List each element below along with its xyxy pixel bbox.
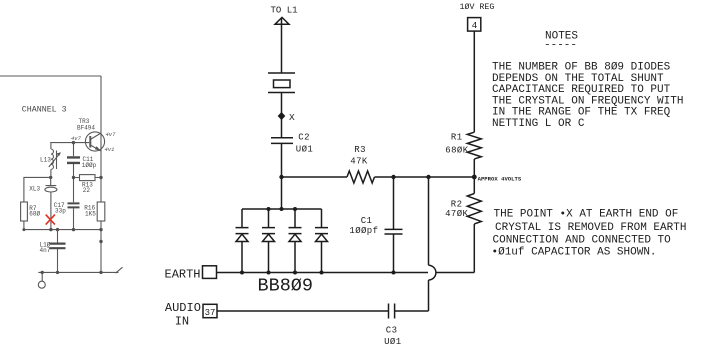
value 470K	[445, 209, 468, 219]
svg-text:CAPACITANCE REQUIRED TO PUT: CAPACITANCE REQUIRED TO PUT	[492, 84, 671, 96]
label R3	[354, 145, 366, 155]
terminal circle	[38, 272, 45, 288]
label BB809	[258, 275, 314, 296]
node earth d1	[240, 271, 244, 275]
svg-text:1ØØpf: 1ØØpf	[349, 226, 378, 236]
capacitor C1 plates	[385, 229, 403, 234]
svg-text:CRYSTAL IS REMOVED FROM EARTH: CRYSTAL IS REMOVED FROM EARTH	[495, 222, 686, 234]
svg-text:22: 22	[83, 187, 91, 194]
transistor TR3 emitter with arrow	[90, 145, 101, 151]
svg-text:EARTH: EARTH	[165, 267, 201, 281]
svg-text:R1: R1	[451, 133, 463, 143]
svg-text:THE CRYSTAL ON FREQUENCY WITH: THE CRYSTAL ON FREQUENCY WITH	[492, 95, 683, 107]
wire right rail	[100, 76, 102, 272]
svg-text:IN: IN	[175, 314, 189, 328]
svg-text:AUDIO: AUDIO	[165, 301, 201, 315]
svg-text:XL3: XL3	[29, 185, 40, 192]
transistor TR3 collector	[90, 133, 101, 140]
node right rail lower	[99, 240, 102, 243]
svg-text:•Ø1uf CAPACITOR AS SHOWN.: •Ø1uf CAPACITOR AS SHOWN.	[492, 246, 657, 258]
wire R2 down to earth line	[473, 224, 475, 273]
capacitor C11	[67, 157, 80, 163]
transistor TR3 base bar	[89, 136, 91, 148]
notes paragraph 1 line 1	[492, 62, 671, 74]
wire base branch through C11 to C17	[73, 143, 75, 230]
voltage 4v7 base	[71, 135, 82, 142]
svg-text:L13: L13	[40, 157, 51, 164]
svg-text:47ØK: 47ØK	[445, 209, 468, 219]
svg-text:UØ1: UØ1	[296, 144, 313, 154]
svg-text:-----: -----	[544, 40, 577, 52]
svg-text:4v1: 4v1	[105, 146, 115, 153]
wire bus down to diode bank	[281, 177, 283, 209]
svg-text:BF494: BF494	[77, 124, 95, 131]
value 4n7	[40, 247, 51, 254]
value U01 (C3)	[384, 337, 401, 347]
node hop-wire bus junction	[426, 175, 430, 179]
varicap diode D2 (BB809)	[262, 209, 275, 273]
value 680	[29, 211, 40, 218]
crystal X1 (plates and body)	[268, 73, 295, 93]
node approx-4volts junction	[472, 175, 477, 180]
node R13 left	[72, 176, 75, 179]
wire audio line right of C3	[395, 310, 429, 312]
svg-text:CHANNEL 3: CHANNEL 3	[22, 106, 67, 115]
resistor R13 box	[74, 175, 102, 181]
node base junction	[72, 141, 75, 144]
node rail c17	[72, 228, 75, 231]
heading underline dashes	[544, 40, 577, 52]
transistor TR3 circle	[85, 132, 104, 151]
wire audio line left of C3	[217, 310, 389, 312]
wire bottom rail	[38, 271, 118, 273]
svg-text:4: 4	[472, 20, 478, 31]
svg-text:C1: C1	[361, 216, 373, 226]
pin number 37	[205, 308, 216, 318]
red cross-out X on XL3 wire	[46, 215, 55, 225]
node rail L10 branch	[56, 228, 59, 231]
label C2	[298, 132, 310, 142]
capacitor C2	[271, 138, 293, 144]
svg-text:C3: C3	[386, 326, 398, 336]
svg-text:IN THE RANGE OF THE TX FREQ: IN THE RANGE OF THE TX FREQ	[492, 107, 671, 119]
svg-text:APPROX 4VOLTS: APPROX 4VOLTS	[478, 175, 522, 182]
terminal box 10V REG 4	[468, 18, 481, 32]
node C1-earth junction	[392, 271, 396, 275]
svg-text:1ØV REG: 1ØV REG	[460, 2, 495, 12]
node bottom rail right	[99, 271, 102, 274]
notes paragraph 1 line 4	[492, 95, 683, 107]
capacitor C17	[68, 203, 80, 207]
label AUDIO	[165, 301, 201, 315]
resistor R7 box	[21, 202, 28, 221]
svg-text:4v7: 4v7	[71, 135, 82, 142]
label C11	[83, 156, 94, 163]
node L13 bottom junction	[49, 176, 52, 179]
node bottom rail terminal	[41, 271, 44, 274]
svg-text:1K5: 1K5	[85, 210, 96, 217]
notes paragraph 1 line 5	[492, 107, 671, 119]
label L10	[40, 241, 51, 248]
svg-text:BB8Ø9: BB8Ø9	[258, 275, 314, 296]
svg-text:C2: C2	[298, 132, 310, 142]
label R13	[82, 182, 93, 189]
capacitor L10 plates	[50, 244, 66, 249]
capacitor L10 branch	[57, 230, 59, 273]
wire 10V reg to R1	[473, 31, 475, 132]
svg-text:TO L1: TO L1	[271, 5, 298, 15]
node bottom rail L10	[56, 271, 59, 274]
resistor R3	[347, 171, 374, 183]
svg-text:4v7: 4v7	[106, 131, 117, 138]
label IN	[175, 314, 189, 328]
svg-text:47K: 47K	[350, 157, 368, 167]
wire crystal to C2	[281, 93, 283, 138]
label CHANNEL 3	[22, 106, 67, 115]
label APPROX 4VOLTS	[478, 175, 522, 182]
notes paragraph 2 line 3	[493, 234, 672, 246]
svg-text:R3: R3	[354, 145, 366, 155]
capacitor C1 branch wires	[393, 177, 395, 273]
svg-text:68ØK: 68ØK	[445, 146, 468, 156]
wire R7 to junction rail	[23, 221, 25, 230]
node C1-bus junction	[391, 175, 395, 179]
crystal XL3	[45, 177, 57, 229]
svg-text:THE POINT •X AT EARTH END OF: THE POINT •X AT EARTH END OF	[494, 209, 679, 221]
wire base lead	[50, 142, 89, 145]
value 22	[83, 187, 91, 194]
node top bus center	[280, 207, 284, 211]
wire junction rail	[24, 229, 101, 231]
node earth d2	[267, 271, 271, 275]
svg-text:UØ1: UØ1	[384, 337, 401, 347]
wire from arrow to crystal	[281, 19, 283, 73]
notes paragraph 1 line 6	[492, 118, 585, 130]
label BF494	[77, 124, 95, 131]
label 10V REG	[460, 2, 495, 12]
svg-text:37: 37	[205, 308, 216, 318]
varicap diode D3 (BB809)	[289, 209, 302, 273]
wire main bus right of R3	[375, 176, 475, 178]
svg-text:CONNECTION AND CONNECTED TO: CONNECTION AND CONNECTED TO	[493, 234, 672, 246]
notes paragraph 2 line 2	[495, 222, 686, 234]
node X marker	[279, 113, 285, 119]
svg-text:DEPENDS ON THE TOTAL SHUNT: DEPENDS ON THE TOTAL SHUNT	[492, 73, 664, 85]
node crystal-bus junction	[279, 175, 283, 179]
label C1	[361, 216, 373, 226]
value 100pf	[349, 226, 378, 236]
label R2	[451, 200, 463, 210]
capacitor C3 plates	[389, 304, 395, 319]
wire to R7	[24, 177, 51, 202]
varicap diode D1 (BB809)	[236, 209, 249, 273]
resistor R16 box	[97, 202, 105, 221]
node earth d4	[320, 271, 324, 275]
heading NOTES	[545, 31, 578, 43]
label R1	[451, 133, 463, 143]
value 100p	[82, 162, 97, 169]
resistor R2	[467, 194, 481, 224]
svg-text:X: X	[289, 112, 295, 123]
notes paragraph 2 line 4	[492, 246, 657, 258]
voltage 4v7 collector	[106, 131, 117, 138]
svg-text:NETTING L OR C: NETTING L OR C	[492, 118, 585, 130]
node earth d3	[293, 271, 297, 275]
svg-text:THE NUMBER OF BB 8Ø9 DIODES: THE NUMBER OF BB 8Ø9 DIODES	[492, 62, 671, 74]
varicap diode D4 (BB809)	[315, 209, 328, 273]
antenna arrow to L1	[275, 17, 289, 24]
wire R1 to junction	[473, 159, 475, 177]
label TO L1	[271, 5, 298, 15]
value 47K	[350, 157, 368, 167]
value 33p	[55, 207, 66, 214]
notes paragraph 2 line 1	[494, 209, 679, 221]
node rail xl3	[49, 228, 52, 231]
svg-text:68Ø: 68Ø	[29, 211, 40, 218]
terminal box AUDIO IN 37	[203, 304, 217, 317]
svg-text:1ØØp: 1ØØp	[82, 162, 97, 169]
resistor R1	[467, 132, 481, 159]
label C17	[54, 202, 65, 209]
label XL3	[29, 185, 40, 192]
value 1K5	[85, 210, 96, 217]
wire hop branch with arc over earth line	[429, 177, 436, 311]
wire earth line	[217, 272, 475, 274]
terminal box EARTH	[203, 266, 217, 279]
notes paragraph 1 line 2	[492, 73, 664, 85]
label R7	[29, 205, 37, 212]
label EARTH	[165, 267, 201, 281]
svg-text:R2: R2	[451, 200, 463, 210]
value 680K	[445, 146, 468, 156]
node rail R7 corner	[22, 228, 25, 231]
wire junction to R2	[473, 177, 475, 194]
label R16	[84, 205, 95, 212]
wire diode bank top bus	[242, 208, 322, 210]
label C3	[386, 326, 398, 336]
svg-text:4n7: 4n7	[40, 247, 51, 254]
label X node	[289, 112, 295, 123]
label L13	[40, 157, 51, 164]
wire main bus left of R3	[282, 176, 348, 178]
node top bus d2	[267, 207, 271, 211]
node rail right	[99, 228, 102, 231]
inductor L13 (variable)	[49, 143, 61, 177]
value U01 (C2)	[296, 144, 313, 154]
wire top rail (left photo circuit)	[0, 75, 101, 77]
label TR3	[79, 118, 90, 125]
notes paragraph 1 line 3	[492, 84, 671, 96]
node top bus d3	[293, 207, 297, 211]
svg-text:33p: 33p	[55, 207, 66, 214]
wire C2 to bus	[281, 143, 283, 177]
voltage 4v1 emitter	[105, 146, 115, 153]
continuation tick	[116, 267, 123, 273]
pin number 4	[472, 20, 478, 31]
node R13 right	[99, 176, 102, 179]
